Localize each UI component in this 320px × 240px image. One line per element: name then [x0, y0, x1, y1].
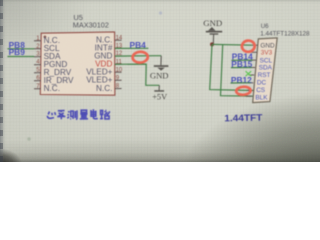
电	[91, 109, 98, 119]
U5 component body	[40, 32, 115, 95]
ground symbol GND (U5 pin 12)	[150, 56, 169, 81]
faint green smudge artifact	[27, 137, 31, 141]
GND power symbol (top, for U6)	[203, 18, 222, 44]
wire PB8 to pin2 SCL	[7, 48, 34, 50]
wire ground to U6 GND pin	[212, 43, 252, 46]
U5 left pin numbers 1-7	[36, 36, 40, 90]
junction dot	[210, 42, 214, 46]
路	[100, 110, 110, 119]
wire vertical to CS	[210, 44, 254, 90]
U5 left pin stubs 1-7	[34, 41, 41, 89]
wire PB12 to DC	[231, 82, 251, 84]
心	[47, 112, 55, 119]
+5V power symbol	[152, 85, 167, 101]
wire vertical to BLK	[221, 45, 254, 97]
wire PB14 to SCL	[231, 59, 252, 61]
U6 pin names	[255, 42, 275, 101]
red annotation ellipse on U6 GND/3V3 pin	[241, 40, 255, 52]
wire PB15 to SDA	[231, 67, 252, 69]
U5 right pin stubs 14-8	[115, 40, 122, 88]
wire pin13 INT# to PB4	[115, 47, 148, 49]
faint blue smudge artifact	[159, 11, 162, 14]
U6 component body	[253, 38, 278, 103]
U5 left pin names	[44, 36, 74, 93]
U5 pin-1 dot	[44, 36, 47, 39]
U5 right pin names	[86, 36, 113, 93]
wire pin11 VDD to +5V	[115, 64, 159, 85]
测	[67, 110, 77, 119]
wire pin12 GND to ground symbol	[115, 55, 161, 57]
U5 right pin numbers 14-8	[116, 35, 123, 89]
caption 心率测量电路 (drawn strokes)	[47, 109, 109, 119]
率	[57, 110, 65, 119]
量	[80, 110, 88, 119]
U6 pin stubs	[246, 45, 258, 96]
wire PB9 to pin3 SDA	[7, 56, 34, 58]
red annotation ellipse on U6 CS pin	[236, 86, 251, 95]
red annotation ellipse on U5 VDD/GND pins	[132, 51, 148, 63]
no-ERC cross on RST	[246, 71, 252, 76]
U5 MAX30102 heart-rate sensor IC	[40, 13, 115, 95]
